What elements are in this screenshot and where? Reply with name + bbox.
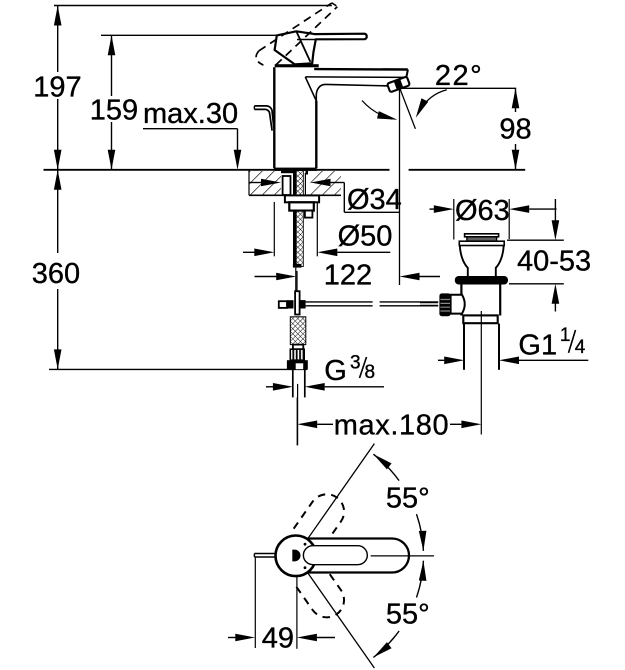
shank top cap bar — [281, 171, 296, 173]
hose ferrule — [290, 349, 304, 360]
svg-text:40-53: 40-53 — [517, 246, 591, 278]
faucet base plate — [274, 168, 317, 171]
dimension Ø50 — [273, 202, 275, 256]
body top band — [275, 64, 319, 67]
counter hatch right — [311, 171, 342, 195]
lever top view — [305, 539, 409, 573]
svg-text:4: 4 — [575, 337, 586, 358]
dimension 159 — [111, 35, 113, 96]
spout chamfer — [305, 77, 316, 101]
drain lower body — [460, 285, 462, 316]
shank stud threaded — [296, 171, 303, 267]
svg-text:360: 360 — [32, 258, 80, 290]
svg-text:98: 98 — [499, 113, 531, 145]
svg-text:122: 122 — [324, 259, 372, 291]
drain knob — [439, 293, 450, 316]
spout top edge — [314, 68, 408, 71]
extension line 360 bottom — [49, 368, 307, 370]
svg-text:3: 3 — [350, 352, 361, 373]
svg-text:G: G — [324, 355, 347, 387]
extension line 159 top — [101, 34, 277, 36]
lever slot — [303, 546, 367, 565]
lever bar bottom edge left extension — [297, 39, 316, 41]
svg-text:8: 8 — [365, 362, 376, 383]
22deg leader left — [362, 101, 392, 120]
G3/8 pipe — [292, 370, 294, 398]
drain: Ø63 extension lines — [453, 199, 455, 240]
counter bottom line — [249, 194, 341, 196]
center mark — [292, 550, 300, 562]
drain flange — [459, 241, 504, 245]
drain centerline — [480, 311, 482, 435]
dimension Ø63 — [430, 208, 435, 210]
dimension G1 1/4 — [438, 359, 444, 361]
flex hose braided — [290, 317, 306, 345]
water vertical line — [399, 88, 401, 285]
svg-text:22°: 22° — [435, 60, 483, 92]
body circle top view — [276, 536, 317, 577]
drain top cap — [465, 234, 499, 237]
drain neck — [460, 246, 504, 277]
fitting left cap — [279, 301, 287, 308]
extension line top (197) — [54, 5, 332, 7]
centerline right — [371, 555, 434, 557]
dimension 49 — [254, 558, 256, 649]
knob rod — [420, 302, 438, 304]
22deg leader right — [420, 90, 447, 111]
dimension Ø34 — [249, 182, 262, 184]
svg-text:197: 197 — [33, 72, 81, 104]
centerline below pipe — [297, 384, 299, 445]
faucet body right edge — [315, 101, 317, 169]
svg-text:G1: G1 — [518, 329, 557, 361]
svg-text:159: 159 — [90, 95, 138, 127]
svg-text:1: 1 — [560, 325, 571, 346]
shank right line — [304, 173, 306, 195]
counter top line — [44, 169, 390, 171]
hose nut — [287, 360, 308, 370]
mounting flange — [285, 195, 319, 202]
dimension 360 — [57, 170, 59, 253]
dashed raised lever — [259, 3, 332, 51]
aerator — [387, 76, 410, 92]
mounting nut — [289, 202, 314, 210]
pop-up cross fitting pin — [295, 291, 300, 314]
centerline below stud — [295, 268, 297, 291]
dimension 122 — [296, 271, 298, 294]
dimension 98 — [515, 88, 517, 112]
fitting blocks — [287, 300, 294, 308]
dimension G3/8 — [266, 386, 273, 388]
pop-up horizontal rod — [306, 301, 373, 303]
shank stud black edge — [293, 171, 296, 267]
stud tip — [293, 264, 302, 268]
spout right face — [406, 70, 408, 78]
nut step — [305, 211, 313, 218]
svg-text:Ø34: Ø34 — [347, 184, 402, 216]
svg-text:Ø50: Ø50 — [338, 221, 393, 253]
drain O-ring — [455, 276, 508, 285]
lever inner edge — [296, 31, 310, 62]
pivot dots — [304, 543, 307, 546]
22deg extension — [400, 87, 516, 89]
drain tailpipe — [463, 324, 465, 370]
hose white band — [293, 345, 303, 350]
svg-text:55°: 55° — [386, 482, 430, 514]
svg-text:max.30: max.30 — [143, 98, 238, 130]
angle arc lower — [373, 561, 423, 658]
angle arc upper — [373, 454, 423, 551]
svg-text:Ø63: Ø63 — [455, 195, 510, 227]
drain bottom rim — [463, 315, 497, 323]
svg-text:55°: 55° — [386, 599, 430, 631]
counter hatch left — [249, 171, 281, 195]
dimension 40-53 — [507, 239, 564, 241]
lever handle — [275, 31, 367, 64]
spout underside — [316, 84, 388, 100]
shank sleeve — [283, 176, 291, 195]
svg-text:max.180: max.180 — [334, 410, 449, 442]
rod top view — [254, 553, 275, 555]
dimension 197 — [57, 6, 59, 73]
water slant line — [400, 88, 416, 129]
pop-up rod knob — [254, 106, 274, 129]
svg-text:49: 49 — [262, 623, 294, 655]
dashed lever down 55 — [294, 563, 389, 670]
spout mid line — [305, 76, 406, 79]
drain knob connector — [451, 295, 465, 314]
dashed lever up 55 — [294, 434, 389, 549]
dimension max.180 — [296, 398, 298, 446]
faucet body left edge — [273, 67, 275, 168]
